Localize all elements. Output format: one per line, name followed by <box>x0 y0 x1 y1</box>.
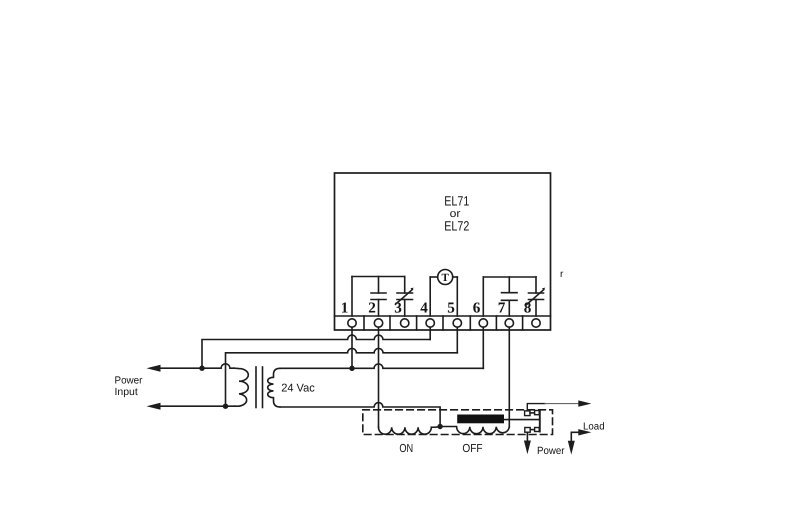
svg-text:Power: Power <box>537 445 565 457</box>
variable capacitor at terminal 3 <box>396 277 414 317</box>
wire terminal 2 drop to ON coil <box>378 327 380 427</box>
actuator dashed enclosure <box>363 410 553 435</box>
wire terminal 7 drop to OFF coil <box>508 327 510 427</box>
capacitor C at terminal 7 <box>502 277 518 316</box>
junction dot neutral/terminal5 <box>223 404 228 409</box>
terminal strip cell dividers <box>364 316 523 330</box>
svg-text:T: T <box>442 272 450 284</box>
variable capacitor at terminal 8 <box>527 277 545 316</box>
svg-text:Load: Load <box>583 421 605 432</box>
svg-text:1: 1 <box>341 300 349 317</box>
disconnect pin top-right <box>535 411 540 415</box>
svg-text:Input: Input <box>115 387 138 398</box>
svg-text:EL71: EL71 <box>444 194 469 209</box>
label OFF <box>462 442 482 455</box>
transformer secondary winding 24 Vac <box>268 368 280 407</box>
wire heater to disconnect <box>504 419 539 421</box>
svg-text:ON: ON <box>399 442 413 455</box>
disconnect pin bottom-right <box>535 428 540 432</box>
wire switched output <box>527 404 578 411</box>
label ON <box>399 442 413 455</box>
secondary hot wire to terminals 1 and 6 with hop <box>280 364 483 368</box>
terminal screws 1-8 <box>348 319 540 327</box>
stray mark r <box>560 269 564 280</box>
terminal strip top line <box>335 315 551 317</box>
internal bracket terminals 1-3 <box>352 277 405 317</box>
svg-text:24 Vac: 24 Vac <box>281 382 315 394</box>
wire terminal 5 drop <box>456 327 458 353</box>
wire power feed down <box>526 433 528 441</box>
svg-text:6: 6 <box>473 300 481 317</box>
label Load <box>583 421 605 432</box>
heater bar <box>457 415 504 424</box>
disconnect plug contact bar <box>539 411 541 432</box>
svg-text:OFF: OFF <box>462 442 482 455</box>
T letter <box>442 272 450 284</box>
junction dot coil common <box>437 424 442 429</box>
thermostat sensor T between terminals 4-5 <box>430 270 457 317</box>
label Power <box>537 445 565 457</box>
arrow load right <box>578 429 591 435</box>
svg-text:7: 7 <box>498 300 506 317</box>
power input hot wire <box>160 364 234 368</box>
svg-text:2: 2 <box>368 300 376 317</box>
arrow switched output <box>578 400 591 406</box>
capacitor C at terminal 2 <box>371 277 386 317</box>
junction dot hot/terminal4 <box>199 366 204 371</box>
arrow load down <box>568 441 575 455</box>
terminal numbers 1-8 <box>341 300 532 317</box>
arrow power input neutral <box>147 403 161 410</box>
label Power Input <box>115 376 143 399</box>
wire terminal 1 drop <box>351 327 353 368</box>
load indicator wire <box>571 432 578 441</box>
power input neutral wire <box>160 405 235 407</box>
label 24 Vac <box>281 382 315 394</box>
svg-text:4: 4 <box>420 300 428 317</box>
svg-text:Power: Power <box>115 376 143 387</box>
transformer core <box>256 367 263 408</box>
secondary common wire to coil junction with hop <box>280 403 440 427</box>
controller box EL71/EL72 outline <box>335 173 551 330</box>
disconnect pin top-left <box>525 411 530 416</box>
wire terminal 4 drop <box>429 327 431 339</box>
wire terminal 5 to line-neutral with hops <box>226 348 458 406</box>
svg-text:r: r <box>560 269 564 280</box>
junction dot secondary/terminal1 <box>349 366 354 371</box>
contact link top <box>530 412 534 414</box>
arrow power input hot <box>147 365 161 372</box>
svg-text:5: 5 <box>447 300 455 317</box>
wire terminal 4 to line-hot with hops <box>202 335 430 368</box>
arrow power feed <box>524 441 531 455</box>
OFF solenoid coil <box>440 427 509 434</box>
disconnect pin bottom-left <box>525 428 530 433</box>
svg-text:EL72: EL72 <box>444 218 469 233</box>
transformer primary winding <box>234 368 248 406</box>
internal bracket terminals 6-8 <box>483 277 536 316</box>
contact link bottom <box>530 429 534 431</box>
ON solenoid coil <box>379 427 441 435</box>
wire terminal 6 drop <box>482 327 484 368</box>
label EL71 or EL72 <box>444 194 469 234</box>
